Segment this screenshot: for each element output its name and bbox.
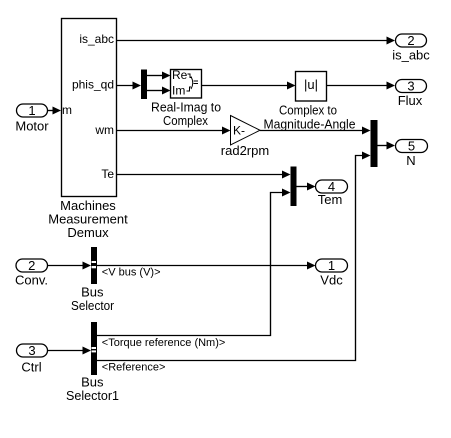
- svg-text:3: 3: [28, 343, 35, 358]
- wire phis_qd to demux: [116, 82, 141, 90]
- wire Te to mux Tem in1: [116, 171, 291, 179]
- wire V bus to outport Vdc: [97, 262, 316, 279]
- svg-text:<V bus (V)>: <V bus (V)>: [102, 266, 161, 278]
- block U2 Real-Imag to Complex: [151, 68, 221, 128]
- wire gain out to mux N in1: [260, 127, 371, 135]
- svg-text:Selector: Selector: [71, 298, 115, 313]
- svg-text:m: m: [62, 103, 72, 117]
- output port 1 Vdc: [316, 258, 348, 288]
- output port 5 N: [396, 139, 428, 169]
- svg-text:N: N: [406, 153, 415, 168]
- svg-text:Re: Re: [172, 68, 188, 82]
- demux bar (phis_qd): [141, 70, 147, 100]
- wire |u| out to outport 3: [327, 82, 396, 90]
- svg-text:K-: K-: [233, 124, 245, 138]
- bus selector bar (Bus Selector): [71, 247, 115, 313]
- output port 4 Tem: [316, 179, 348, 207]
- input port 2 Conv.: [15, 258, 48, 288]
- svg-text:wm: wm: [94, 123, 114, 137]
- svg-text:Motor: Motor: [15, 119, 49, 134]
- svg-text:2: 2: [407, 33, 414, 48]
- mux bar N: [371, 120, 378, 167]
- svg-text:Vdc: Vdc: [320, 273, 343, 288]
- svg-text:Selector1: Selector1: [66, 388, 119, 403]
- svg-text:Te: Te: [101, 167, 114, 181]
- svg-text:3: 3: [407, 79, 414, 94]
- wire mux Tem out to outport 4: [297, 183, 316, 191]
- wire Conv to Bus Selector: [48, 262, 92, 270]
- wire demux out1 to Re: [147, 72, 171, 80]
- wire demux out2 to Im: [147, 87, 171, 95]
- svg-text:|u|: |u|: [304, 77, 318, 92]
- output port 2 is_abc: [392, 33, 430, 63]
- block U3 Complex to Magnitude-Angle: [264, 72, 356, 132]
- wire Torque reference to mux Tem in2: [97, 189, 291, 349]
- svg-text:2: 2: [28, 258, 35, 273]
- svg-text:5: 5: [408, 139, 415, 154]
- wire mux N out to outport 5: [378, 142, 396, 150]
- gain rad2rpm (triangle K-): [221, 116, 269, 159]
- input port 3 Ctrl: [17, 343, 48, 375]
- svg-text:Complex: Complex: [163, 113, 208, 128]
- output port 3 Flux: [396, 79, 427, 109]
- wire Reference to mux N in2: [97, 152, 371, 374]
- svg-text:Im: Im: [172, 84, 185, 98]
- svg-text:Flux: Flux: [398, 93, 423, 108]
- svg-text:<Reference>: <Reference>: [102, 361, 166, 373]
- svg-text:Conv.: Conv.: [15, 273, 48, 288]
- block U1 Machines Measurement Demux: [48, 19, 128, 240]
- svg-text:Ctrl: Ctrl: [21, 360, 41, 375]
- svg-text:1: 1: [328, 258, 335, 273]
- wire is_abc to outport 2: [116, 37, 395, 45]
- input port 1 Motor: [15, 103, 49, 134]
- svg-text:<Torque reference (Nm)>: <Torque reference (Nm)>: [102, 337, 226, 349]
- svg-text:Magnitude-Angle: Magnitude-Angle: [264, 117, 356, 132]
- wire Ctrl to Bus Selector1: [48, 347, 92, 355]
- svg-text:Complex to: Complex to: [279, 103, 337, 118]
- wire wm to gain: [116, 127, 231, 135]
- svg-text:Demux: Demux: [67, 225, 109, 240]
- wire Re/Im out to |u|: [202, 82, 296, 90]
- wire Motor to block port m: [48, 107, 62, 115]
- bus selector bar (Bus Selector1): [66, 322, 119, 403]
- svg-text:1: 1: [28, 103, 35, 118]
- svg-text:is_abc: is_abc: [79, 32, 114, 46]
- svg-text:rad2rpm: rad2rpm: [221, 143, 269, 158]
- svg-text:Tem: Tem: [318, 192, 343, 207]
- svg-text:phis_qd: phis_qd: [72, 78, 114, 92]
- svg-text:is_abc: is_abc: [392, 48, 430, 63]
- mux bar Tem: [291, 167, 297, 207]
